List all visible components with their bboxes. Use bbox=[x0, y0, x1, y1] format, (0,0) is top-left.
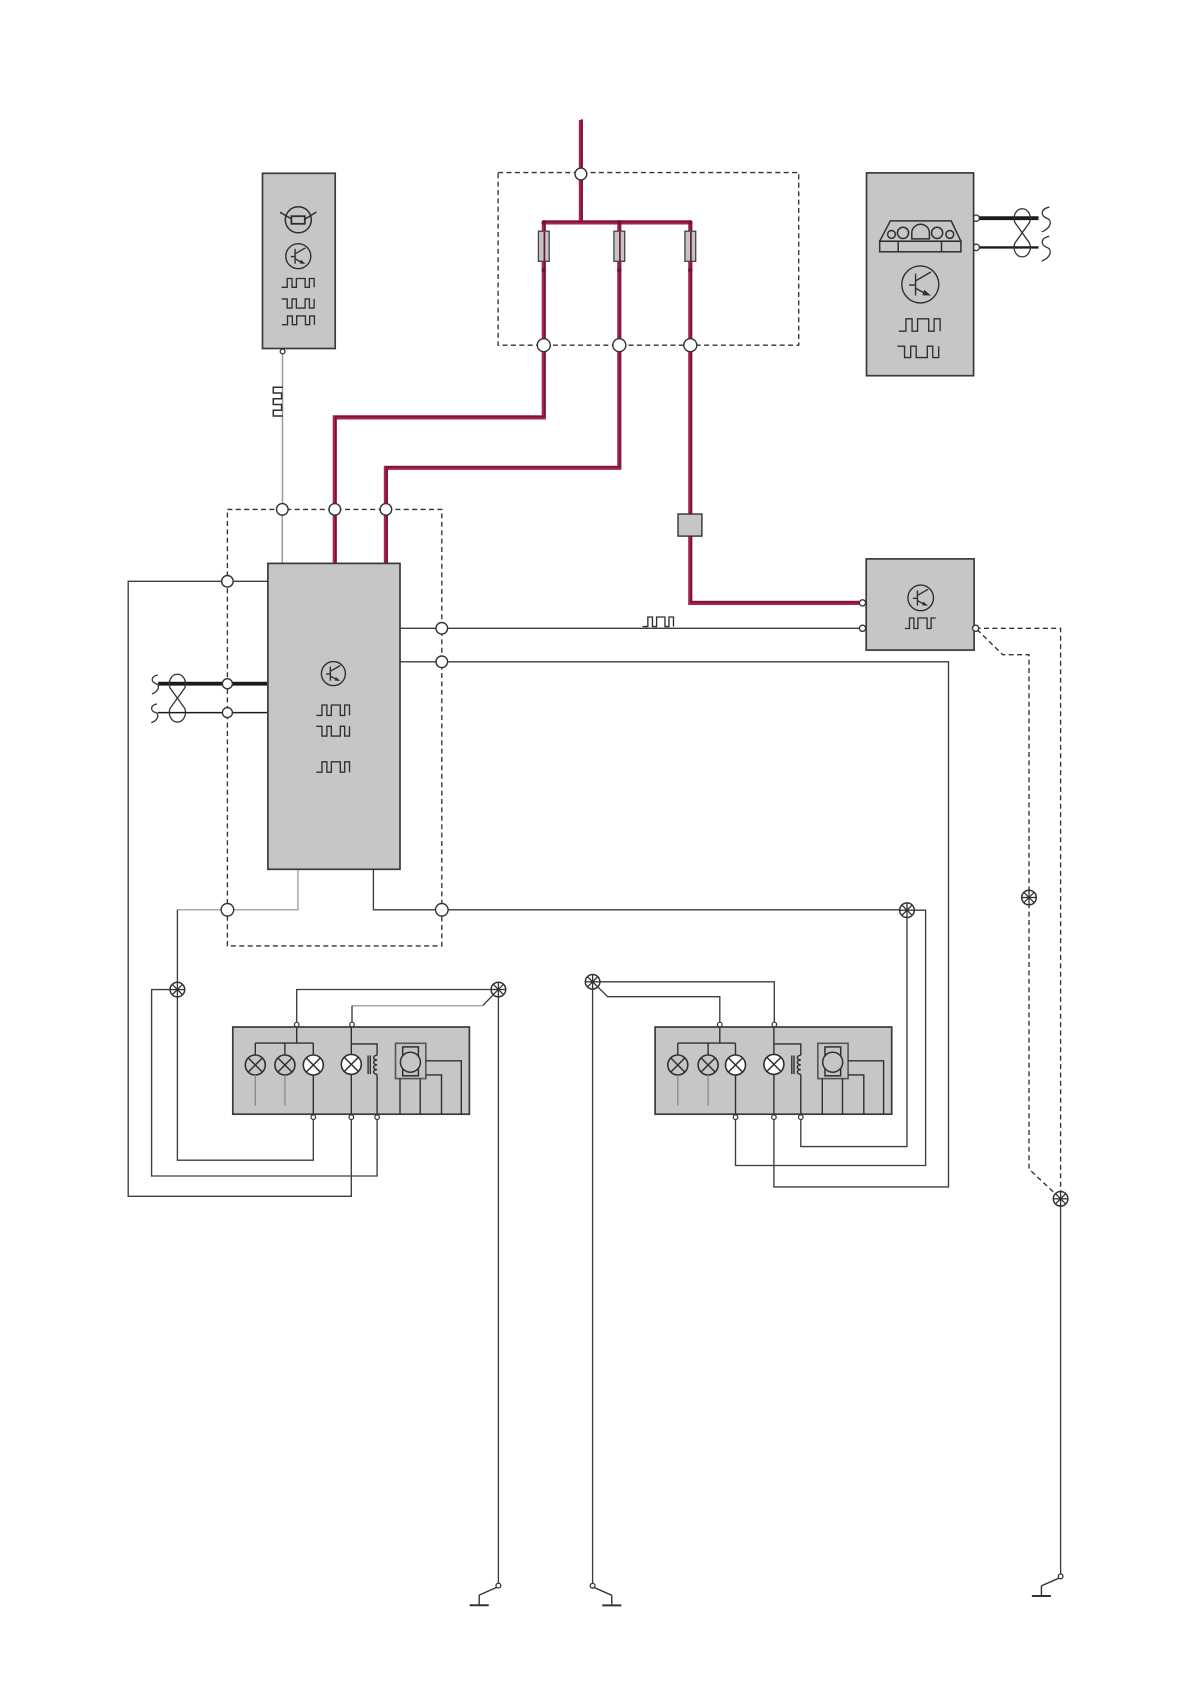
connector under fuse F2 bbox=[613, 339, 626, 352]
splice S2 bbox=[900, 903, 915, 918]
connector on harness left edge (grey bottom run) bbox=[221, 904, 234, 917]
dashboard icon bbox=[880, 221, 961, 252]
wire: splice S3 to left cluster top pin 1 bbox=[297, 990, 499, 1025]
wire: connector into control module top bbox=[281, 509, 283, 563]
red wire: fuse F2 down, left, into control module bbox=[386, 222, 619, 563]
wire (grey): run to left cluster top pin 2 bbox=[352, 1005, 483, 1007]
right direction-indicator cluster (lamp cluster) bbox=[655, 1027, 892, 1114]
ground G3 bbox=[1058, 1574, 1063, 1579]
lamp 3 bottom wire bbox=[312, 1075, 314, 1114]
transistor symbol bbox=[321, 662, 345, 686]
pins: right cluster bottom bbox=[733, 1115, 738, 1120]
pins: right cluster top bbox=[718, 1022, 723, 1027]
splice S1 bbox=[170, 982, 185, 997]
connector at fuse box top bbox=[575, 168, 587, 180]
transistor symbol bbox=[286, 244, 311, 269]
wire: module A bottom pin down to harness connector bbox=[282, 354, 284, 509]
lamp 4 top riser and coil branch bbox=[350, 1027, 352, 1054]
red fuse supply bus bbox=[544, 220, 691, 224]
pins: left cluster bottom bbox=[311, 1115, 316, 1120]
dashed wire: module C right pin to right drop bbox=[976, 628, 1061, 1199]
turn lamp 4 bbox=[341, 1054, 361, 1074]
splice S6 on dashed drop bbox=[1022, 890, 1037, 905]
transistor symbol bbox=[902, 266, 939, 303]
turn lamp 3 bbox=[303, 1055, 323, 1075]
turn lamp 1 bbox=[245, 1055, 265, 1075]
wire (grey): control module bottom stub to connector and corner bbox=[177, 869, 298, 910]
twist crossing symbol bbox=[169, 674, 185, 722]
pulse signal symbol above wire bbox=[643, 617, 674, 627]
fuse F3 bbox=[685, 231, 696, 261]
wire: splice S4 down to ground G2 bbox=[592, 982, 594, 1584]
pulse waveform 3 bbox=[316, 762, 349, 772]
pin: module C left 1 (red) bbox=[859, 600, 865, 606]
control module (flasher ECU, centre) bbox=[268, 563, 400, 869]
red wire: fuse F3 down to module C pin bbox=[690, 222, 862, 603]
lamp 1-2 bottom stubs bbox=[677, 1075, 679, 1106]
wire: control module right pin 1 to module C left pin (signal) bbox=[400, 627, 863, 629]
relay coil bbox=[797, 1055, 800, 1074]
pin: cluster B pair hi bbox=[973, 215, 979, 221]
pulse waveform bbox=[905, 618, 936, 629]
red wire: fuse F1 down, left, into control module bbox=[335, 222, 544, 563]
splice S3 bbox=[491, 982, 506, 997]
pulse-coded signal symbol on wire bbox=[273, 387, 283, 416]
left direction-indicator cluster (lamp cluster) bbox=[233, 1027, 470, 1114]
pin: cluster B pair lo bbox=[973, 244, 979, 250]
pulse waveform 1 bbox=[282, 279, 315, 288]
lamp 3 bottom wire bbox=[735, 1075, 737, 1114]
pulse waveform 2 bbox=[316, 726, 349, 736]
turn lamp 1 bbox=[668, 1055, 688, 1075]
motor M bbox=[396, 1043, 426, 1078]
cluster B (instrument module, top-right) bbox=[867, 173, 974, 376]
pin: module C left 2 bbox=[859, 625, 865, 631]
pin: module C right bbox=[973, 625, 979, 631]
motor M bbox=[818, 1043, 848, 1078]
motor pin wires bbox=[821, 1079, 823, 1115]
twist crossing symbol bbox=[1014, 209, 1030, 257]
wire: splice S5 down to ground G3 bbox=[1060, 1199, 1062, 1574]
dashed wire: module C right pin diagonal drop through splice S6 bbox=[977, 630, 1061, 1199]
splice S4 bbox=[585, 975, 600, 990]
connector on harness top edge (module A wire) bbox=[277, 504, 289, 516]
riser to top pin 1 bbox=[296, 1027, 298, 1043]
thermistor symbol bbox=[280, 207, 316, 233]
fuse F1 bbox=[538, 231, 549, 261]
pulse waveform 3 bbox=[282, 316, 315, 325]
wire: splice S2 down to right cluster pin (relay coil) bbox=[801, 910, 907, 1146]
wire: splice S4 diagonal and run to right cluster top pin 1 bbox=[593, 982, 720, 1024]
pulse waveform 2 bbox=[282, 299, 315, 308]
connector on harness left edge (twisted pair hi) bbox=[222, 679, 232, 689]
connector on harness right edge (long run) bbox=[436, 656, 448, 668]
pulse waveform 1 bbox=[316, 705, 349, 715]
turn lamp 4 bbox=[764, 1054, 784, 1074]
connector on harness right edge (splice run) bbox=[436, 904, 449, 917]
wire break curls bbox=[1042, 207, 1050, 232]
wire: control module left pin to far-left run down to left lamp cluster pin bbox=[128, 581, 351, 1196]
module C (relay unit, right) bbox=[866, 559, 974, 650]
riser to top pin 1 bbox=[719, 1027, 721, 1043]
connector under fuse F1 bbox=[537, 339, 550, 352]
internal feed bus bbox=[678, 1042, 736, 1044]
turn lamp 3 bbox=[726, 1055, 746, 1075]
connector on harness top edge (red feed 2) bbox=[380, 504, 392, 516]
connector on harness top edge (red feed 1) bbox=[329, 504, 341, 516]
lamp 4 top riser and coil branch bbox=[773, 1027, 775, 1054]
module A (sensor/control unit, top-left) bbox=[263, 173, 336, 348]
fuse F2 bbox=[614, 231, 625, 261]
wire: control module right pin 2 long run down to right cluster pin (lamp 4) bbox=[400, 662, 949, 1187]
wire: splice S2 right corner down to right cluster pin (lamp 3) bbox=[736, 910, 926, 1165]
twisted pair to control module (thick=hi, thin=lo) bbox=[158, 682, 267, 686]
ground G1 bbox=[496, 1583, 501, 1588]
connector on harness right edge (signal wire) bbox=[436, 623, 448, 635]
dashed harness outline around control module bbox=[227, 509, 441, 946]
wire: corner down to splice S1 bbox=[176, 910, 178, 990]
wire: riser to left cluster top pin 2 bbox=[351, 1006, 353, 1024]
ground G2 bbox=[590, 1583, 595, 1588]
lamp 4 bottom wire bbox=[350, 1074, 352, 1114]
motor pin wires bbox=[399, 1079, 401, 1115]
wire: splice S4 to right cluster top pin 2 bbox=[593, 982, 775, 1024]
solder joints on red bus bbox=[542, 220, 547, 225]
pulse waveform 2 bbox=[897, 346, 938, 357]
lamp 4 bottom wire bbox=[773, 1074, 775, 1114]
connector on harness left edge (twisted pair lo) bbox=[222, 708, 232, 718]
inline connector on red wire to module C bbox=[678, 514, 702, 536]
turn lamp 2 bbox=[698, 1055, 718, 1075]
wire: splice S1 left corner down then to left cluster pin (relay coil) bbox=[152, 990, 378, 1176]
dashed harness outline around fuse box bbox=[498, 173, 799, 346]
wire: splice S3 down to ground G1 bbox=[497, 990, 499, 1584]
pulse waveform 1 bbox=[899, 319, 940, 331]
connector on harness left edge (left run) bbox=[222, 576, 234, 588]
module A bottom pin bbox=[280, 349, 285, 354]
internal feed bus bbox=[255, 1042, 313, 1044]
connector under fuse F3 bbox=[684, 339, 697, 352]
transistor symbol bbox=[908, 585, 934, 611]
wire: splice S1 down then to left cluster pin (lamp 3) bbox=[177, 990, 313, 1161]
red battery feed wire into fuse box bbox=[579, 120, 583, 222]
wire break curls bbox=[152, 675, 159, 694]
relay coil bbox=[374, 1055, 377, 1074]
splice S5 bbox=[1053, 1192, 1068, 1207]
wire: control module bottom stub right to splice S2 (long run) bbox=[373, 869, 907, 910]
wire: splice S3 diagonal bbox=[483, 990, 499, 1006]
pins: left cluster top bbox=[294, 1022, 299, 1027]
turn lamp 2 bbox=[275, 1055, 295, 1075]
twisted pair from cluster B (thick=hi, thin=lo) bbox=[976, 216, 1038, 220]
lamp 1-2 bottom stubs bbox=[254, 1075, 256, 1106]
